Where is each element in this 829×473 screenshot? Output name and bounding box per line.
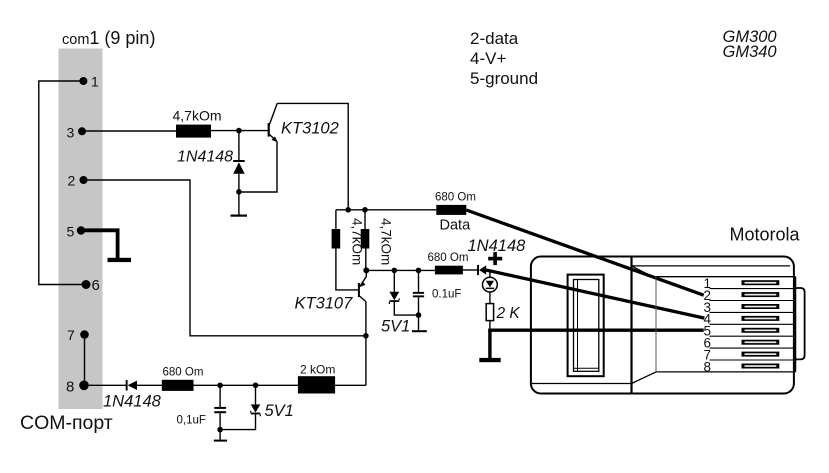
resistor R5 680 Om (emitter row): [435, 266, 463, 275]
resistor R4 680 Om (Data): [436, 205, 466, 215]
svg-text:2 K: 2 K: [496, 305, 521, 322]
RJ45 inner top line: [632, 265, 791, 267]
svg-text:4,7kOm: 4,7kOm: [173, 108, 222, 124]
svg-text:1N4148: 1N4148: [103, 393, 162, 411]
RJ45 plug body: [531, 257, 794, 394]
wire pin2 loop to Q2 collector: [84, 180, 366, 336]
plus symbol: [488, 252, 502, 265]
wire emitter row: [366, 269, 435, 271]
wire pin3 row: [82, 130, 176, 132]
pin 6: [82, 280, 91, 289]
node emitter row: [363, 267, 369, 273]
diode D3 1N4148: [477, 265, 486, 275]
wire pin8 row: [88, 384, 126, 386]
zener Z2 5V1: [220, 385, 260, 429]
wire R5 to D3: [463, 269, 477, 271]
svg-text:5-ground: 5-ground: [470, 69, 538, 88]
ground pin5 (thick bar): [108, 258, 132, 262]
ground C2: [214, 440, 227, 442]
svg-text:Motorola: Motorola: [730, 225, 801, 245]
zener Z1 5V1: [389, 270, 418, 315]
wire pin7 to pin8: [84, 335, 86, 386]
node cap C1 tap: [416, 268, 422, 274]
svg-text:1: 1: [91, 74, 99, 90]
node D1-emitter: [236, 189, 242, 195]
resistor R6 2K (open): [486, 304, 493, 321]
capacitor C2 0,1uF: [214, 385, 226, 440]
pin 8: [79, 381, 89, 391]
RJ45 clip slot outer: [568, 275, 604, 377]
svg-text:8: 8: [704, 359, 712, 374]
thick wire to RJ45 pin5: [488, 329, 703, 332]
resistor R7 680 Om: [162, 380, 194, 391]
thick wire D3 to RJ45 pin4: [486, 270, 704, 318]
RJ45 row lines: [710, 288, 796, 290]
resistor R2 4,7kOm vertical: [332, 229, 341, 249]
diode D1 1N4148: [233, 131, 245, 215]
thick wire down to ground: [488, 329, 491, 358]
RJ45 latch tab: [796, 288, 805, 359]
wire R1 to base: [211, 130, 268, 132]
RJ45 pin block frame: [656, 276, 796, 278]
svg-text:4-V+: 4-V+: [470, 49, 506, 68]
svg-text:5V1: 5V1: [265, 402, 294, 420]
RJ45 inner bottom line: [532, 383, 632, 385]
wire junction row to Data resistor: [336, 209, 436, 211]
RJ45 nose bottom diagonal: [632, 372, 657, 384]
wire pin1 to pin6 loop: [39, 81, 86, 285]
node right branch junction: [362, 207, 368, 213]
node zener Z1 tap: [392, 268, 398, 274]
svg-text:680 Om: 680 Om: [428, 252, 469, 264]
ground D1: [231, 215, 248, 217]
pin 2: [80, 176, 88, 184]
node base Q1: [236, 128, 242, 134]
resistor R3 4,7kOm vertical: [361, 229, 370, 249]
pin 3: [78, 127, 86, 135]
wire Q2 collector down: [365, 302, 367, 386]
wire Q1 emitter down and left: [239, 142, 277, 192]
svg-text:8: 8: [66, 379, 74, 396]
wire Q1 collector top run: [277, 103, 348, 209]
svg-text:4,7kOm: 4,7kOm: [379, 218, 394, 265]
resistor R8 2 kOm: [298, 376, 335, 393]
node collector junction: [345, 207, 351, 213]
wire right branch: [364, 210, 366, 229]
svg-text:7: 7: [67, 327, 75, 343]
DB9 connector body (gray bar): [59, 49, 103, 410]
svg-text:5V1: 5V1: [381, 318, 410, 336]
node C2 tap: [217, 383, 223, 389]
wire R7 to R8: [194, 384, 298, 386]
capacitor C1 0.1uF: [413, 270, 424, 330]
resistor R1 4,7kOm: [176, 125, 211, 138]
svg-text:1N4148: 1N4148: [177, 149, 233, 166]
svg-text:2-data: 2-data: [470, 29, 519, 48]
wire R2 to base Q2: [336, 249, 358, 290]
wire R8 to Q2 collector: [335, 384, 366, 386]
wire R6 down: [489, 321, 491, 330]
svg-text:680 Om: 680 Om: [435, 192, 476, 204]
svg-text:Data: Data: [440, 218, 472, 234]
node Z2 tap: [253, 383, 259, 389]
node C1 zener join: [416, 312, 422, 318]
RJ45 clip slot inner ridge: [577, 280, 579, 372]
transistor Q1 KT3102: [268, 103, 278, 142]
svg-text:3: 3: [67, 125, 75, 141]
ground LED branch (thick bar): [479, 358, 500, 362]
diode D2 1N4148: [126, 380, 162, 390]
RJ45 nose top diagonal: [632, 266, 657, 279]
svg-text:2: 2: [68, 173, 76, 189]
svg-text:6: 6: [92, 277, 100, 294]
RJ45 divider: [630, 257, 632, 394]
svg-text:5: 5: [67, 224, 75, 240]
svg-text:2 kOm: 2 kOm: [300, 363, 335, 377]
svg-text:0.1uF: 0.1uF: [432, 289, 461, 301]
thick wire Data to RJ45 pin2: [466, 210, 703, 295]
pin 5: [77, 226, 85, 234]
transistor Q2 KT3107: [358, 270, 366, 301]
RJ45 clip slot inner: [574, 280, 599, 372]
ground C1: [412, 330, 427, 332]
node C2 Z2 join: [217, 427, 223, 433]
svg-text:GM340: GM340: [723, 43, 778, 61]
pin 7: [80, 330, 89, 339]
svg-text:0,1uF: 0,1uF: [177, 415, 206, 427]
thick wire pin5 to ground: [84, 230, 118, 258]
pin 1: [79, 77, 87, 85]
svg-text:680 Om: 680 Om: [163, 367, 204, 379]
RJ45 pin contacts: [742, 280, 780, 368]
svg-text:KT3102: KT3102: [281, 120, 339, 138]
node pin2-collector: [363, 333, 369, 339]
LED: [483, 270, 498, 304]
wire left branch: [335, 210, 337, 229]
svg-text:KT3107: KT3107: [295, 295, 354, 313]
wire R3 to emitter node: [365, 249, 367, 271]
svg-text:COM-порт: COM-порт: [20, 412, 113, 434]
